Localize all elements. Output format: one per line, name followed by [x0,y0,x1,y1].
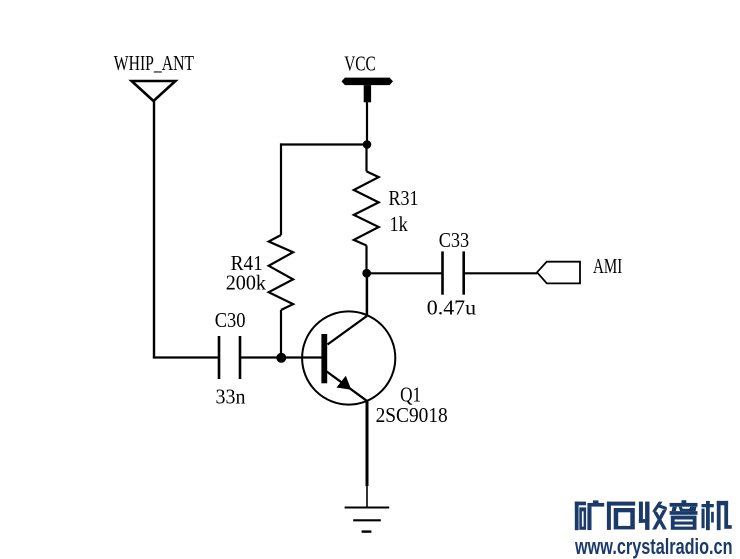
wire R41 upper lead [280,143,282,235]
svg-text:33n: 33n [216,385,246,409]
svg-text:0.47u: 0.47u [427,295,477,319]
svg-text:200k: 200k [226,271,267,295]
transistor Q1 [302,311,395,404]
watermark logo 收 [639,502,667,530]
watermark logo 矿 [575,500,604,530]
svg-text:VCC: VCC [344,52,376,76]
svg-text:C30: C30 [215,308,246,332]
wire antenna vertical [153,100,155,358]
capacitor C30 [219,336,240,379]
svg-text:R31: R31 [389,186,419,210]
wire VCC down to node [366,102,368,145]
wire R31 lower lead [365,246,367,274]
watermark logo 机 [702,501,732,530]
power VCC symbol [342,78,394,103]
svg-text:www.crystalradio.cn: www.crystalradio.cn [574,534,732,559]
svg-text:2SC9018: 2SC9018 [376,403,448,427]
resistor R41 [269,235,293,310]
svg-text:C33: C33 [439,228,470,252]
watermark logo 石 [607,502,635,530]
antenna WHIP_ANT [132,81,176,101]
svg-text:1k: 1k [390,212,409,236]
wire antenna to C30 [153,356,219,358]
wire collector vertical [366,273,369,316]
port AMI [537,262,580,284]
wire emitter vertical [366,401,369,487]
wire emitter to ground [366,486,368,508]
wire C33 to port AMI [464,272,537,274]
node base junction [276,353,286,363]
resistor R31 [354,171,379,245]
watermark logo 音 [670,500,698,530]
wire C30 to base node [240,356,322,358]
capacitor C33 [443,251,464,294]
wire collector node to C33 [367,272,443,274]
svg-text:WHIP_ANT: WHIP_ANT [114,51,194,75]
node VCC junction [363,140,372,149]
ground [345,508,390,532]
svg-text:AMI: AMI [593,254,622,278]
wire R31 upper lead [365,145,367,172]
wire R41 lower lead [280,310,282,358]
node collector junction [362,269,371,278]
wire top horizontal VCC to R41 [280,143,367,145]
